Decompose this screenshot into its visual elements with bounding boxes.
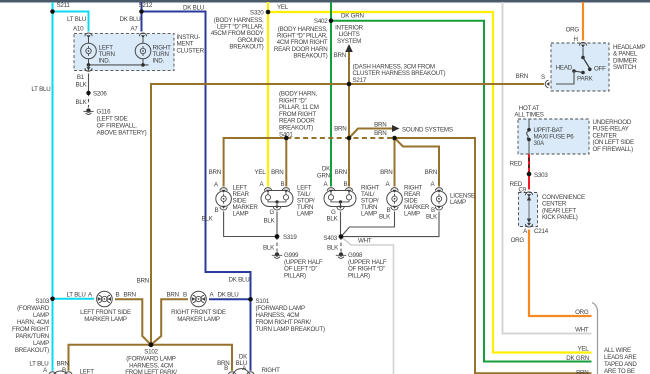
wire ORG from convenience center C214 down and right to tape bundle — [529, 230, 592, 317]
name right rear side marker lamp — [404, 185, 430, 218]
svg-text:PARK: PARK — [577, 76, 594, 83]
note S401 body harn — [279, 91, 319, 139]
svg-text:OF FIREWALL,: OF FIREWALL, — [97, 123, 138, 130]
labels B / BRN at left front side marker — [116, 292, 136, 299]
svg-text:BRN: BRN — [137, 278, 149, 285]
svg-text:BLK: BLK — [75, 82, 87, 89]
svg-text:DK GRN: DK GRN — [566, 355, 589, 362]
junction S401 — [284, 136, 289, 141]
svg-text:ABOVE BATTERY): ABOVE BATTERY) — [97, 130, 147, 137]
svg-text:(FORWARD: (FORWARD — [17, 305, 50, 312]
convenience center internal lead — [527, 196, 531, 223]
terminal S headlamp switch — [545, 80, 549, 87]
labels DK BLU A bottom right park/turn — [236, 354, 248, 373]
svg-text:C9: C9 — [519, 186, 527, 193]
terminal B left rear side marker — [220, 206, 227, 210]
terminal A7 instrument cluster — [139, 33, 146, 38]
svg-text:BLK: BLK — [201, 216, 213, 223]
label UPFIT-BAT MAXI FUSE P6 30A — [534, 127, 575, 147]
indicator lamp RIGHT TURN IND — [135, 38, 151, 65]
svg-text:HARNESS, 4CM: HARNESS, 4CM — [256, 312, 300, 319]
arrow right end of instrument cluster internal line — [149, 62, 155, 68]
svg-text:TAPED AND: TAPED AND — [604, 361, 637, 368]
wire BRN left front side marker lamp B to S102 — [115, 299, 151, 345]
terminal A left rear side marker — [220, 188, 227, 193]
labels BRN / B bottom right park/turn — [217, 360, 229, 372]
wire ORG from top edge to headlamp switch H — [582, 2, 584, 41]
terminal A / C214 convenience center bottom — [525, 223, 532, 227]
svg-text:CLUSTER: CLUSTER — [177, 47, 205, 54]
svg-text:LAMP: LAMP — [297, 211, 313, 218]
wire BLK right rear side marker B to S403 — [341, 212, 395, 237]
svg-text:YEL: YEL — [577, 346, 589, 353]
tape bundle wire color labels — [566, 309, 589, 374]
svg-text:LAMP: LAMP — [33, 312, 49, 319]
lamp right rear side marker — [387, 191, 403, 207]
arrow to interior lights system — [345, 44, 353, 52]
wire BLK dashed S403 to G998 — [340, 237, 342, 252]
svg-text:B: B — [224, 365, 228, 372]
svg-text:BREAKOUT): BREAKOUT) — [293, 52, 327, 59]
label LEFT TURN IND — [99, 45, 115, 65]
wire BRN rear lamp feed dashed segment S401 to right marker junction — [286, 137, 394, 139]
terminal A left front side marker — [98, 295, 102, 302]
svg-text:LAMP: LAMP — [404, 211, 420, 218]
wire BRN headlamp switch feed: S to S217 to corner, down to S102 — [151, 84, 544, 343]
ground G999 — [272, 252, 282, 258]
svg-text:DK BLU: DK BLU — [229, 276, 250, 283]
svg-text:RED: RED — [510, 160, 523, 167]
junction S103 — [50, 297, 55, 302]
labels LT BLU / A at left front side marker — [67, 292, 94, 299]
svg-text:B1: B1 — [77, 74, 85, 81]
lamp right front side marker — [191, 291, 207, 307]
svg-text:ALL WIRE: ALL WIRE — [604, 347, 631, 354]
terminal B left tail/stop/turn — [282, 188, 289, 193]
instrument cluster box — [74, 34, 174, 71]
terminal A right front side marker — [201, 295, 205, 302]
terminal A left tail/stop/turn — [264, 188, 271, 193]
svg-text:TURN LAMP BREAKOUT): TURN LAMP BREAKOUT) — [256, 326, 325, 333]
junction right marker / license takeoff — [392, 136, 397, 141]
terminal A left park/turn — [49, 372, 56, 374]
wire YEL from S320 right and down to tape bundle — [268, 12, 592, 353]
svg-text:FROM LEFT PARK/: FROM LEFT PARK/ — [125, 369, 177, 374]
junction S403 — [339, 234, 344, 239]
arrow to sound systems — [392, 125, 400, 132]
svg-text:PARK/TURN: PARK/TURN — [16, 333, 49, 340]
svg-text:LAMP: LAMP — [361, 211, 377, 218]
svg-text:BRN: BRN — [374, 130, 386, 137]
svg-text:BLK: BLK — [426, 214, 438, 221]
label CONVENIENCE CENTER — [542, 194, 585, 221]
lamp left tail/stop/turn — [261, 191, 293, 207]
note S320 body harness — [211, 17, 264, 50]
wire BRN rear lamp feed solid segment corner to S401 — [224, 138, 287, 187]
svg-text:LAMP: LAMP — [33, 340, 49, 347]
name left front side marker lamp — [80, 309, 131, 323]
svg-text:IND.: IND. — [99, 58, 111, 65]
wire DK BLU vertical from top edge to instrument cluster A7 — [141, 2, 143, 32]
wire BRN license lamp branch — [395, 138, 440, 187]
lamp left park/turn partial at bottom edge — [53, 371, 68, 374]
wire BRN right front side marker lamp B to S102 — [151, 299, 188, 345]
junction S319 — [275, 234, 280, 239]
junction S211 — [50, 9, 55, 14]
svg-text:G: G — [270, 209, 275, 216]
svg-text:BLK: BLK — [327, 245, 339, 252]
labels BRN / B bottom left park/turn — [57, 361, 69, 374]
svg-text:SOUND SYSTEMS: SOUND SYSTEMS — [402, 127, 453, 134]
lamp left rear side marker — [216, 191, 232, 207]
convenience center box — [519, 193, 538, 227]
svg-text:A10: A10 — [73, 26, 84, 33]
wire RED fuse output to convenience center C9 through S303 — [528, 154, 530, 190]
terminal B right front side marker — [192, 295, 196, 302]
svg-text:BRN: BRN — [374, 122, 386, 129]
svg-text:BRN: BRN — [124, 292, 136, 299]
svg-text:BRN: BRN — [271, 169, 283, 176]
name left rear side marker lamp — [233, 185, 259, 218]
svg-text:H: H — [574, 36, 578, 43]
wire DK GRN from S402 right and down to tape bundle — [331, 21, 592, 362]
svg-text:HEAD: HEAD — [556, 65, 573, 72]
top window edge bar — [0, 0, 650, 3]
wire DK BLU from S212 right and down to S101 and right park/turn lamp A — [142, 12, 251, 371]
junction S101 — [248, 297, 253, 302]
svg-text:BREAKOUT): BREAKOUT) — [229, 43, 263, 50]
svg-text:SWITCH: SWITCH — [613, 64, 636, 71]
label INSTRU-MENT CLUSTER — [177, 34, 205, 54]
name right tail/stop/turn lamp — [361, 185, 380, 218]
terminal B right park/turn — [228, 372, 235, 374]
svg-text:S403: S403 — [323, 235, 337, 242]
label HEADLAMP & PANEL DIMMER SWITCH — [613, 44, 645, 71]
svg-text:DK GRN: DK GRN — [341, 12, 364, 19]
svg-text:A7: A7 — [131, 26, 139, 33]
svg-text:S211: S211 — [57, 2, 71, 9]
svg-text:B: B — [116, 292, 120, 299]
svg-text:B: B — [281, 181, 285, 188]
svg-text:LT BLU: LT BLU — [31, 86, 50, 93]
svg-text:BLK: BLK — [326, 216, 338, 223]
name license lamp — [450, 193, 475, 207]
tape bundle brace — [592, 303, 598, 374]
svg-text:LAMP: LAMP — [450, 199, 466, 206]
label INTERIOR LIGHTS SYSTEM — [335, 25, 364, 45]
lamp license — [431, 191, 447, 207]
note S402 body harness — [274, 26, 328, 59]
svg-text:BRN: BRN — [334, 126, 346, 133]
svg-text:C214: C214 — [534, 228, 549, 235]
terminal G left tail/stop/turn — [273, 206, 280, 210]
svg-text:SYSTEM: SYSTEM — [337, 38, 361, 45]
wire YEL vertical from top edge to left tail/stop/turn lamp A — [267, 2, 269, 187]
label S101 and note — [256, 298, 325, 333]
terminal C9 convenience center — [525, 192, 532, 197]
label UNDERHOOD FUSE-RELAY CENTER — [593, 119, 634, 153]
headlamp and panel dimmer switch box — [551, 43, 609, 91]
svg-text:B: B — [183, 292, 187, 299]
note G999 — [284, 252, 323, 279]
svg-text:S401: S401 — [279, 131, 293, 138]
svg-text:BLK: BLK — [263, 218, 275, 225]
terminal B left park/turn — [65, 372, 72, 374]
terminal B left front side marker — [107, 295, 111, 302]
wire BRN feed to tape bundle right side — [395, 138, 592, 373]
terminal A right tail/stop/turn — [327, 188, 334, 193]
svg-text:BLK: BLK — [263, 245, 275, 252]
junction S320 — [266, 10, 271, 15]
labels A / DK BLU at right front side marker — [210, 292, 239, 299]
wire BRN interior lights branch above S217 down to right tail lamp B — [348, 50, 350, 187]
wire BLK dashed S206 to G116 — [88, 93, 90, 108]
fuse UPFIT-BAT MAXI FUSE P6 30A — [527, 120, 531, 155]
wire BRN left tail/stop/turn lamp B drop — [285, 138, 287, 187]
wire LT BLU branch S211 to instrument cluster A10 — [53, 12, 89, 32]
label S102 and note — [125, 349, 177, 374]
wire DK BLU branch S101 to right front side marker lamp A — [209, 298, 251, 300]
junction S402 — [329, 18, 334, 23]
wire WHT panel edge / white lead from S403 to tape bundle — [342, 2, 592, 374]
svg-text:S303: S303 — [534, 172, 548, 179]
svg-text:DK BLU: DK BLU — [183, 5, 204, 12]
svg-text:GRN: GRN — [317, 172, 330, 179]
wire BLK left rear side marker B and left tail lamp G to S319 — [224, 212, 277, 237]
svg-text:LEADS ARE: LEADS ARE — [604, 354, 637, 361]
svg-text:DK BLU: DK BLU — [119, 16, 140, 23]
svg-text:LT BLU: LT BLU — [67, 16, 86, 23]
terminal G right tail/stop/turn — [337, 206, 344, 210]
svg-text:BRN: BRN — [167, 292, 179, 299]
svg-text:S402: S402 — [314, 18, 328, 25]
svg-text:S217: S217 — [353, 77, 367, 84]
label DK GRN above right tail lamp A — [317, 166, 331, 180]
ground G998 — [336, 252, 346, 258]
wire LT BLU main vertical from top edge to left park/turn lamp A — [52, 2, 54, 371]
terminal H headlamp switch — [579, 42, 586, 47]
svg-text:BLK: BLK — [75, 99, 87, 106]
lamp right park/turn partial at bottom edge — [233, 369, 251, 374]
svg-text:B: B — [344, 181, 348, 188]
wire BLK right tail lamp G to S403 — [340, 212, 342, 237]
svg-text:BREAKOUT): BREAKOUT) — [15, 347, 49, 354]
svg-text:BRN: BRN — [516, 73, 528, 80]
svg-text:LT BLU: LT BLU — [67, 292, 86, 299]
svg-text:S: S — [541, 74, 545, 81]
svg-text:BRN: BRN — [209, 169, 221, 176]
wire BRN sound systems branch — [349, 129, 392, 139]
svg-text:DK BLU: DK BLU — [218, 292, 239, 299]
svg-text:S102: S102 — [144, 349, 158, 356]
junction S102 — [149, 342, 154, 347]
terminal A10 instrument cluster — [85, 33, 92, 38]
headlamp switch contacts — [556, 48, 592, 85]
wire LT BLU branch S103 to left front side marker lamp A — [53, 298, 95, 300]
svg-text:BRN: BRN — [380, 169, 392, 176]
svg-text:S206: S206 — [93, 91, 107, 98]
svg-text:IND.: IND. — [153, 58, 165, 65]
labels LT BLU / A bottom left park/turn — [29, 361, 48, 374]
terminal A right rear side marker — [391, 188, 398, 193]
wire BLK dashed S319 to G999 — [276, 237, 278, 252]
note S217 dash harness — [353, 64, 446, 84]
svg-text:S320: S320 — [250, 9, 264, 16]
terminal B license lamp — [435, 206, 442, 210]
svg-text:S212: S212 — [139, 2, 153, 9]
svg-text:ARE TO BE: ARE TO BE — [604, 368, 635, 374]
indicator lamp LEFT TURN IND — [81, 38, 97, 65]
svg-text:B: B — [62, 367, 66, 374]
svg-text:FROM RIGHT: FROM RIGHT — [12, 326, 49, 333]
svg-text:(LEFT SIDE: (LEFT SIDE — [97, 116, 128, 123]
svg-text:ALL TIMES: ALL TIMES — [514, 112, 543, 119]
name left tail/stop/turn lamp — [297, 185, 315, 218]
svg-text:MARKER LAMP: MARKER LAMP — [84, 316, 127, 323]
junction S303 — [527, 172, 532, 177]
terminal A license lamp — [435, 188, 442, 193]
junction S212 — [139, 9, 144, 14]
note G116 — [97, 109, 147, 137]
terminal B right tail/stop/turn — [345, 188, 352, 193]
lamp right tail/stop/turn — [324, 191, 356, 207]
svg-text:G116: G116 — [97, 109, 112, 116]
note ALL WIRE LEADS ARE TAPED — [604, 347, 637, 374]
svg-text:ORG: ORG — [575, 309, 589, 316]
svg-text:YEL: YEL — [277, 4, 289, 11]
note G998 — [348, 252, 387, 279]
svg-text:CLUSTER HARNESS BREAKOUT): CLUSTER HARNESS BREAKOUT) — [353, 70, 446, 77]
svg-text:PILLAR): PILLAR) — [348, 272, 370, 279]
wire BLK license lamp B to S403 — [341, 212, 439, 237]
svg-text:LAMP: LAMP — [233, 211, 249, 218]
wire BRN S102 horizontal to left and right park/turn lamps — [69, 345, 233, 371]
terminal letter labels rear lamp row — [214, 181, 436, 189]
svg-text:HARN, 4CM: HARN, 4CM — [17, 319, 49, 326]
lamp left front side marker — [97, 291, 113, 307]
label HOT AT ALL TIMES — [514, 105, 543, 119]
svg-text:RIGHT: RIGHT — [262, 367, 281, 374]
svg-text:(FORWARD LAMP: (FORWARD LAMP — [256, 305, 305, 312]
svg-text:BRN: BRN — [425, 169, 437, 176]
svg-text:BLK: BLK — [379, 214, 391, 221]
junction at sound systems takeoff — [347, 136, 352, 141]
svg-text:BRN: BRN — [335, 169, 347, 176]
svg-text:S101: S101 — [256, 298, 270, 305]
svg-text:FROM RIGHT PARK/: FROM RIGHT PARK/ — [256, 319, 312, 326]
svg-text:OF FIREWALL): OF FIREWALL) — [593, 146, 634, 153]
svg-text:KICK PANEL): KICK PANEL) — [542, 214, 578, 221]
svg-text:S319: S319 — [283, 234, 297, 241]
terminal B right rear side marker — [391, 206, 398, 210]
wire DK GRN vertical from top edge to right tail/stop/turn lamp A — [330, 2, 332, 187]
svg-text:BRN: BRN — [576, 370, 588, 374]
svg-text:PILLAR): PILLAR) — [284, 272, 306, 279]
wire BRN right rear side marker lamp A drop — [394, 138, 396, 187]
junction S206 — [86, 91, 90, 95]
svg-text:B: B — [215, 207, 219, 214]
instrument cluster internal bus line — [87, 63, 149, 71]
svg-text:LEFT: LEFT — [80, 369, 95, 374]
svg-text:WHT: WHT — [358, 237, 372, 244]
svg-text:S103: S103 — [35, 298, 49, 305]
underhood fuse-relay center box — [518, 119, 589, 154]
svg-text:ORG: ORG — [511, 237, 525, 244]
svg-text:30A: 30A — [534, 140, 545, 147]
svg-text:WHT: WHT — [575, 327, 589, 334]
labels BRN / B at right front side marker — [167, 292, 188, 299]
svg-text:OFF: OFF — [594, 66, 606, 73]
label S103 and note — [12, 298, 50, 354]
junction S217 — [347, 82, 352, 87]
name right front side marker lamp — [171, 309, 226, 323]
terminal B1 instrument cluster bottom — [85, 67, 92, 71]
svg-text:YEL: YEL — [254, 169, 266, 176]
wire BLK instrument cluster B1 to S206 — [88, 74, 90, 93]
terminal A right park/turn — [247, 372, 254, 374]
svg-text:ORG: ORG — [566, 27, 580, 34]
svg-text:MARKER LAMP: MARKER LAMP — [177, 316, 220, 323]
label RIGHT TURN IND — [153, 45, 172, 65]
ground G116 — [83, 108, 93, 114]
svg-text:BRN: BRN — [334, 52, 346, 59]
